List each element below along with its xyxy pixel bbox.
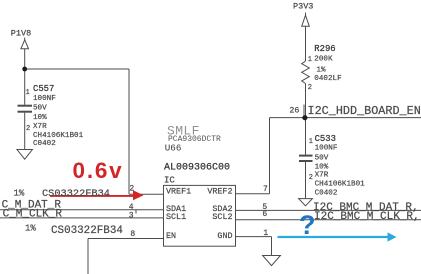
- svg-text:1%: 1%: [316, 67, 326, 75]
- svg-text:1: 1: [26, 89, 30, 97]
- svg-text:P3V3: P3V3: [293, 2, 313, 12]
- svg-text:10%: 10%: [315, 164, 329, 172]
- svg-text:P1V8: P1V8: [11, 28, 31, 38]
- svg-text:2: 2: [308, 84, 312, 92]
- svg-text:50V: 50V: [33, 105, 47, 113]
- svg-text:CS03322FB34: CS03322FB34: [42, 188, 110, 200]
- svg-text:10%: 10%: [33, 114, 47, 122]
- svg-text:1: 1: [308, 56, 312, 64]
- svg-text:1%: 1%: [14, 188, 25, 198]
- svg-text:1: 1: [263, 229, 268, 238]
- svg-text:7: 7: [263, 185, 268, 194]
- svg-text:AL009306C00: AL009306C00: [164, 163, 230, 174]
- svg-text:VREF2: VREF2: [207, 186, 232, 196]
- svg-text:200K: 200K: [314, 55, 333, 63]
- svg-text:2: 2: [26, 125, 30, 133]
- svg-text:VREF1: VREF1: [166, 186, 191, 196]
- svg-text:1%: 1%: [25, 223, 36, 233]
- svg-text:I2C_BMC_M_CLK_R,: I2C_BMC_M_CLK_R,: [314, 211, 420, 223]
- svg-text:C0402: C0402: [33, 140, 56, 148]
- svg-text:X7R: X7R: [33, 123, 47, 131]
- svg-text:0.6v: 0.6v: [73, 158, 124, 183]
- svg-text:GND: GND: [217, 231, 232, 241]
- svg-text:100NF: 100NF: [33, 95, 56, 103]
- svg-text:R296: R296: [314, 44, 335, 54]
- svg-text:2: 2: [309, 174, 313, 182]
- svg-text:IC: IC: [164, 176, 175, 186]
- svg-text:?: ?: [299, 210, 316, 240]
- svg-text:CH4106K1B01: CH4106K1B01: [33, 132, 84, 140]
- svg-text:1: 1: [309, 138, 313, 146]
- svg-text:C_M_CLK_R: C_M_CLK_R: [3, 208, 63, 220]
- svg-text:X7R: X7R: [315, 172, 329, 180]
- svg-text:2: 2: [129, 184, 134, 193]
- svg-text:EN: EN: [166, 231, 176, 241]
- svg-text:100NF: 100NF: [315, 145, 338, 153]
- svg-text:SCL1: SCL1: [166, 212, 186, 222]
- svg-text:C533: C533: [315, 134, 336, 144]
- svg-text:SCL2: SCL2: [212, 212, 232, 222]
- svg-text:I2C_HDD_BOARD_EN: I2C_HDD_BOARD_EN: [308, 104, 421, 118]
- svg-text:C557: C557: [33, 84, 54, 94]
- svg-text:0402LF: 0402LF: [314, 75, 342, 83]
- svg-text:CS03322FB34: CS03322FB34: [51, 225, 123, 237]
- svg-text:CH4106K1B01: CH4106K1B01: [315, 181, 366, 189]
- svg-text:26: 26: [289, 107, 299, 116]
- svg-text:3: 3: [129, 212, 134, 221]
- svg-text:50V: 50V: [315, 155, 329, 163]
- svg-text:6: 6: [262, 210, 267, 219]
- svg-text:U66: U66: [165, 142, 182, 153]
- svg-text:8: 8: [130, 230, 135, 239]
- svg-text:C0402: C0402: [315, 190, 338, 198]
